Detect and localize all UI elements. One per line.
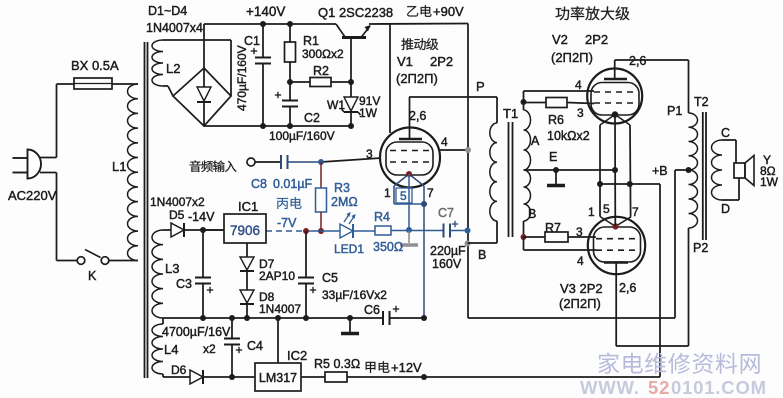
svg-text:7906: 7906 (230, 223, 260, 238)
svg-text:1N4007: 1N4007 (259, 302, 301, 316)
svg-text:BX 0.5A: BX 0.5A (71, 58, 119, 73)
svg-text:100µF/160V: 100µF/160V (269, 129, 335, 143)
svg-text:10kΩx2: 10kΩx2 (547, 129, 590, 143)
svg-text:LM317: LM317 (259, 371, 297, 385)
svg-text:P1: P1 (667, 104, 682, 118)
svg-text:3: 3 (577, 106, 584, 120)
svg-text:2P2: 2P2 (430, 54, 453, 69)
svg-text:3: 3 (366, 147, 373, 161)
svg-text:C3: C3 (176, 277, 192, 291)
svg-text:W1: W1 (327, 98, 345, 112)
svg-text:0.01µF: 0.01µF (273, 177, 313, 191)
svg-text:33µF/16Vx2: 33µF/16Vx2 (322, 288, 387, 302)
svg-text:1N4007x2: 1N4007x2 (150, 195, 205, 209)
svg-text:470µF/160V: 470µF/160V (235, 45, 249, 111)
svg-text:2,6: 2,6 (409, 109, 426, 123)
svg-text:L1: L1 (112, 159, 126, 174)
svg-text:4: 4 (577, 254, 584, 268)
svg-text:V2: V2 (552, 32, 568, 47)
svg-text:B: B (478, 248, 486, 262)
svg-text:D1~D4: D1~D4 (148, 4, 187, 18)
svg-text:7: 7 (632, 205, 639, 219)
svg-text:1: 1 (384, 186, 391, 200)
svg-text:+12V: +12V (391, 360, 422, 375)
svg-text:D: D (721, 202, 730, 216)
svg-text:L2: L2 (166, 61, 180, 76)
svg-text:0101.COM: 0101.COM (671, 377, 767, 398)
svg-text:IC2: IC2 (287, 348, 307, 363)
svg-text:K: K (88, 269, 97, 283)
svg-text:(2П2П): (2П2П) (559, 296, 601, 311)
svg-text:L4: L4 (164, 342, 178, 357)
svg-text:C8: C8 (251, 177, 267, 191)
svg-text:R1: R1 (303, 34, 319, 48)
svg-text:-14V: -14V (188, 210, 215, 224)
svg-text:Q1 2SC2238: Q1 2SC2238 (318, 5, 393, 20)
svg-text:1: 1 (588, 205, 595, 219)
svg-text:+140V: +140V (246, 4, 285, 19)
svg-text:2MΩ: 2MΩ (331, 195, 358, 209)
svg-text:V1: V1 (397, 54, 413, 69)
svg-text:R7: R7 (545, 221, 561, 235)
svg-text:2AP10: 2AP10 (259, 269, 295, 283)
svg-text:4: 4 (575, 78, 582, 92)
svg-text:V3 2P2: V3 2P2 (560, 281, 603, 296)
svg-text:E: E (549, 150, 557, 164)
svg-text:1N4007x4: 1N4007x4 (146, 21, 203, 35)
svg-text:-7V: -7V (277, 216, 297, 230)
svg-text:(2П2П): (2П2П) (396, 71, 438, 86)
svg-text:A: A (531, 134, 540, 148)
svg-text:R3: R3 (334, 181, 350, 195)
svg-text:160V: 160V (432, 257, 462, 271)
svg-text:3: 3 (576, 225, 583, 239)
svg-text:C: C (721, 126, 730, 140)
svg-text:2,6: 2,6 (629, 54, 646, 68)
svg-text:R4: R4 (374, 210, 390, 224)
svg-text:52: 52 (648, 377, 670, 398)
svg-text:C6: C6 (364, 303, 380, 317)
svg-text:1W: 1W (760, 175, 779, 189)
svg-text:4700µF/16V: 4700µF/16V (162, 325, 231, 339)
svg-text:5: 5 (603, 202, 610, 216)
svg-text:(2Π2Π): (2Π2Π) (551, 50, 593, 65)
svg-text:B: B (528, 207, 536, 221)
svg-text:C4: C4 (247, 339, 263, 353)
svg-text:IC1: IC1 (238, 199, 258, 214)
svg-text:+B: +B (652, 164, 668, 178)
svg-text:R5 0.3Ω: R5 0.3Ω (314, 357, 360, 371)
svg-text:C2: C2 (304, 111, 320, 125)
svg-text:L3: L3 (165, 261, 179, 276)
svg-text:1W: 1W (359, 106, 378, 120)
svg-text:x2: x2 (203, 342, 216, 356)
svg-text:+90V: +90V (433, 4, 464, 19)
svg-text:2P2: 2P2 (585, 32, 608, 47)
svg-text:350Ω: 350Ω (373, 240, 403, 254)
svg-text:D6: D6 (171, 363, 187, 377)
svg-text:7: 7 (427, 186, 434, 200)
svg-text:D5: D5 (169, 208, 185, 222)
svg-text:C5: C5 (322, 271, 338, 285)
svg-text:P: P (476, 79, 485, 94)
svg-text:P2: P2 (693, 241, 708, 255)
svg-text:WWW.: WWW. (580, 377, 640, 398)
svg-text:T2: T2 (694, 95, 709, 109)
svg-text:4: 4 (441, 135, 448, 149)
svg-text:R2: R2 (313, 64, 329, 78)
svg-text:220µF: 220µF (430, 244, 466, 258)
svg-text:T1: T1 (503, 106, 518, 121)
svg-text:LED1: LED1 (334, 242, 364, 256)
svg-text:R6: R6 (548, 113, 564, 127)
svg-text:300Ωx2: 300Ωx2 (302, 47, 344, 61)
svg-text:2,6: 2,6 (619, 281, 636, 295)
svg-text:AC220V: AC220V (8, 188, 57, 203)
svg-text:C7: C7 (438, 206, 454, 220)
svg-text:5: 5 (400, 189, 407, 203)
